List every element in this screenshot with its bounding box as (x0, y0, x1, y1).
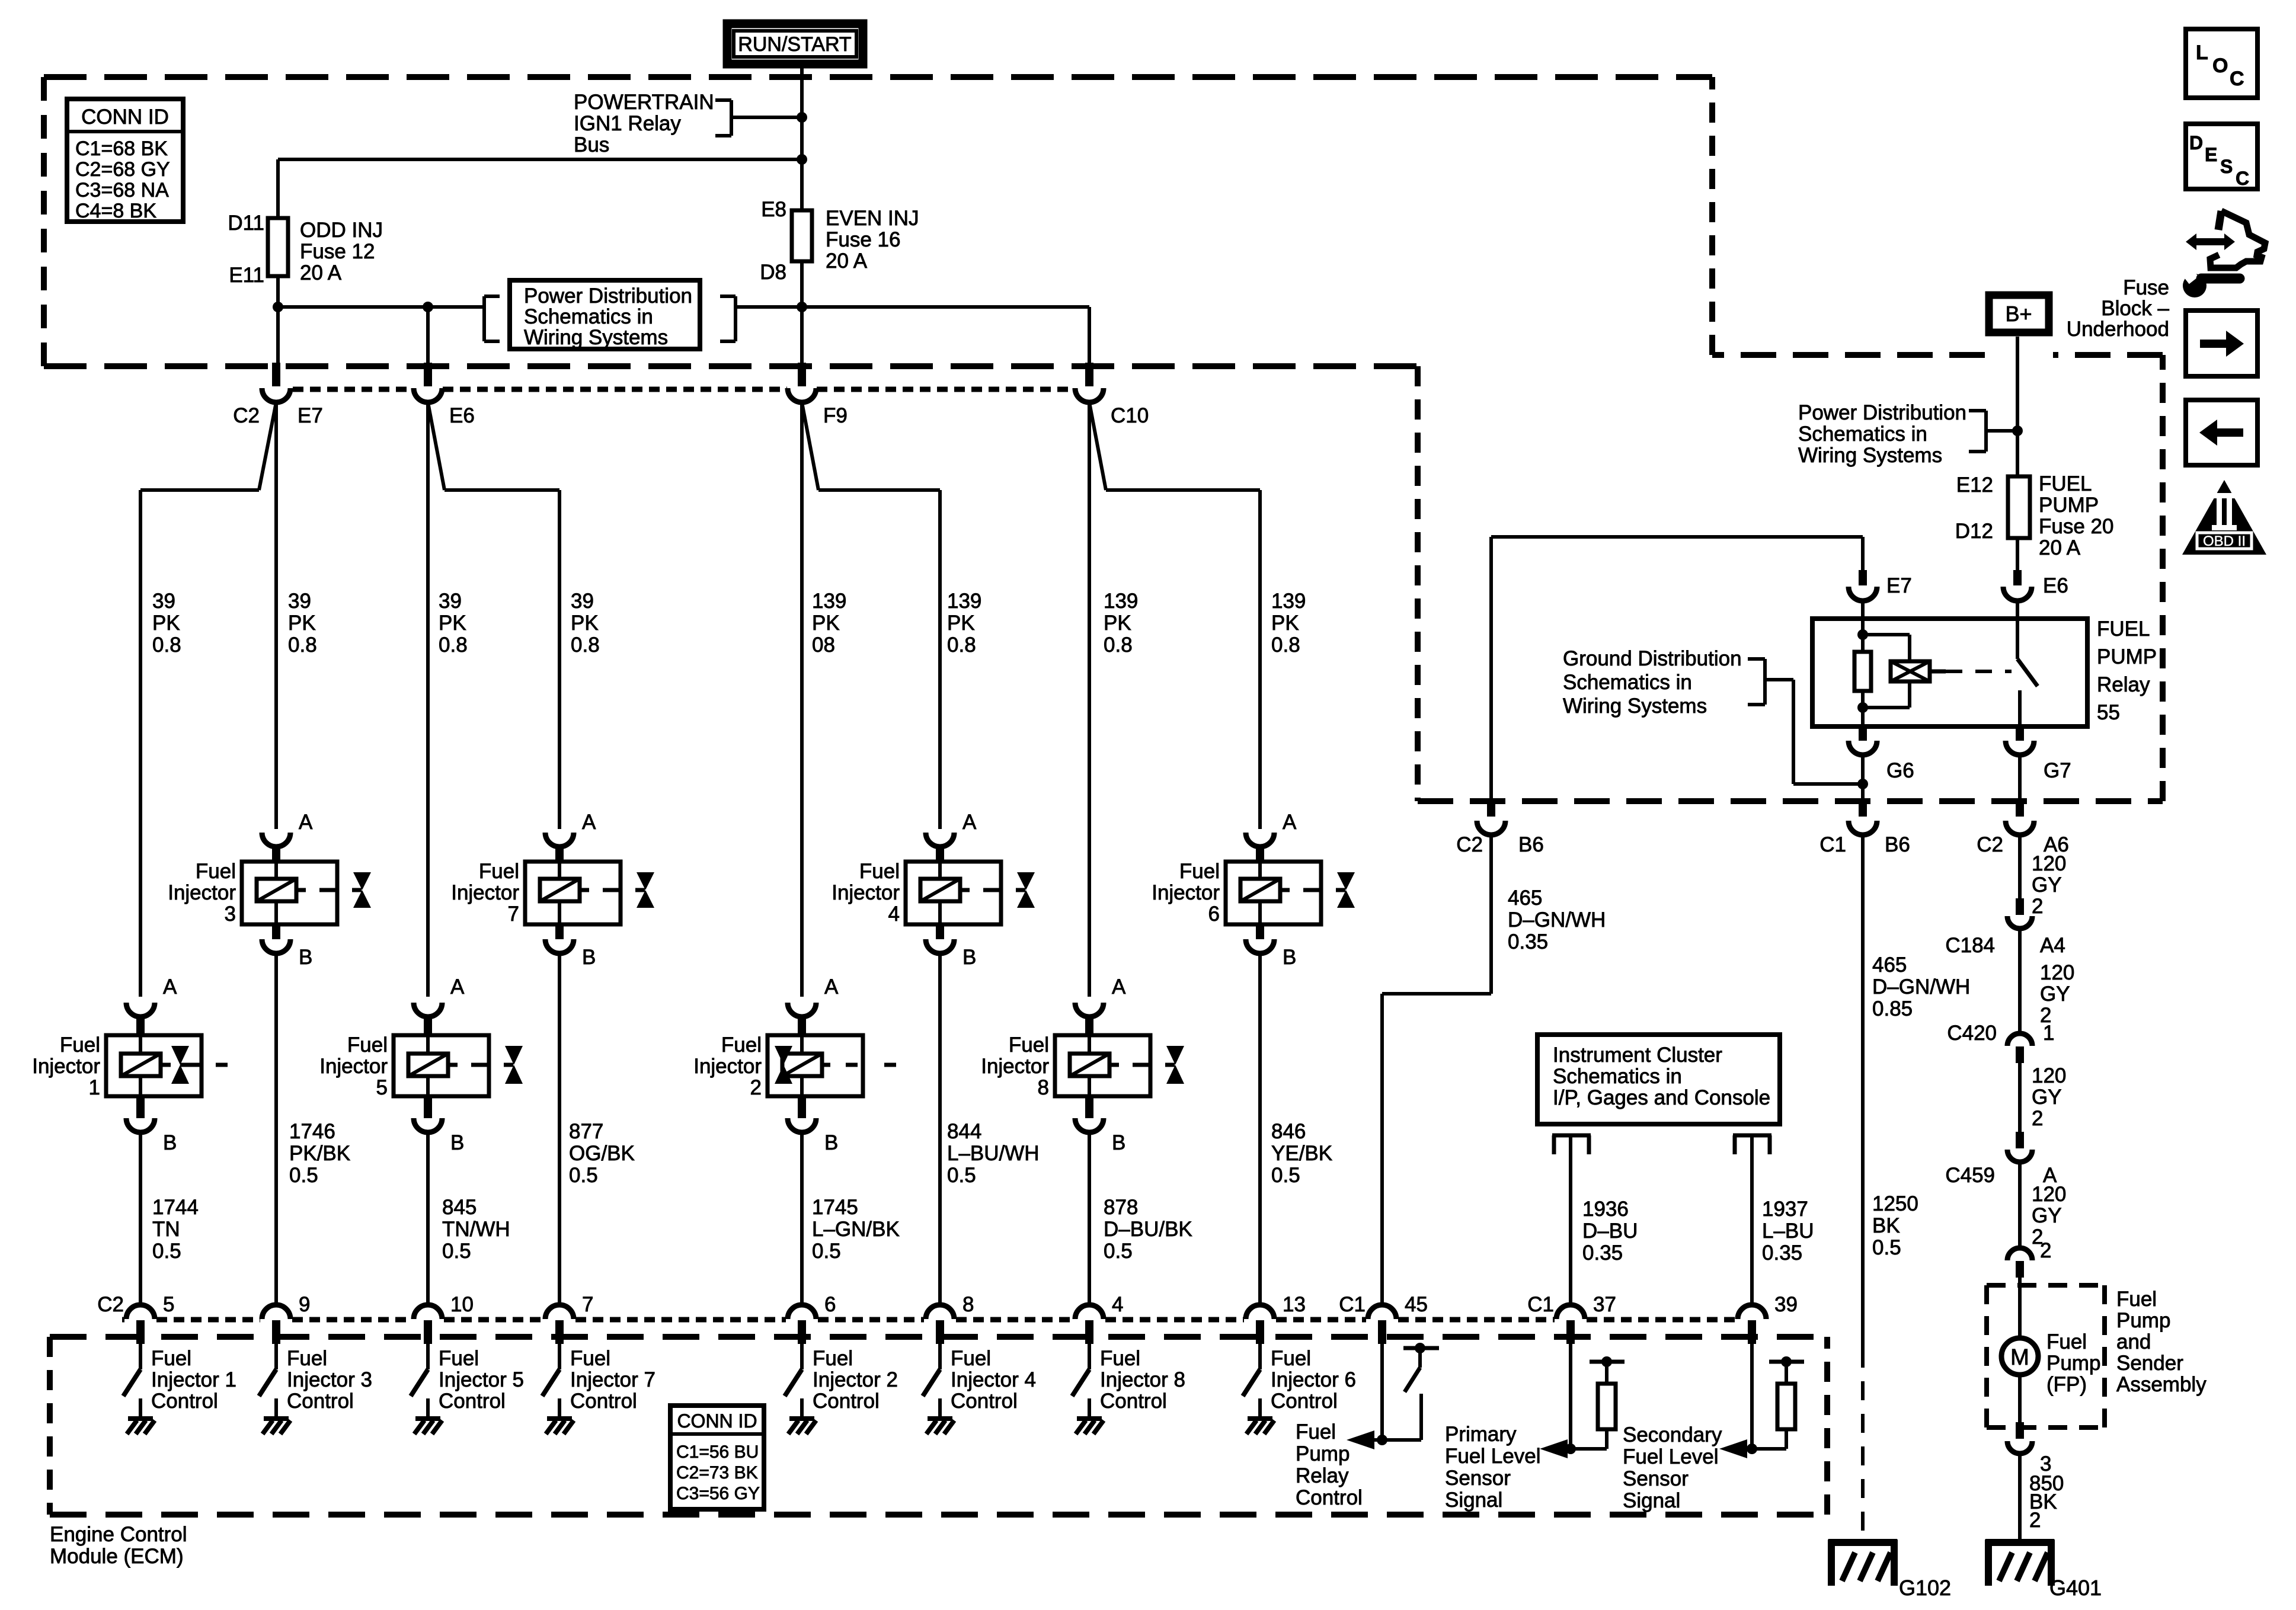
wire G7 to A6 (2018, 755, 2022, 801)
svg-text:0.8: 0.8 (1271, 633, 1300, 657)
connector bracket instrument cluster right (1733, 1134, 1771, 1138)
svg-text:Fuel: Fuel (1100, 1347, 1140, 1370)
svg-text:0.5: 0.5 (442, 1240, 471, 1263)
wire 1937 L-BU 0.35 (1750, 1135, 1754, 1305)
ground G401 (1985, 1539, 2054, 1546)
svg-text:1250: 1250 (1872, 1192, 1918, 1215)
wire ODD fuse to E7 connector (276, 276, 280, 363)
svg-text:0.5: 0.5 (947, 1164, 976, 1187)
svg-text:2: 2 (2029, 1509, 2041, 1532)
svg-text:Power Distribution: Power Distribution (1798, 401, 1966, 424)
svg-text:Injector: Injector (168, 881, 236, 904)
svg-text:GY: GY (2032, 1086, 2062, 1109)
svg-text:0.35: 0.35 (1582, 1241, 1623, 1265)
svg-text:845: 845 (442, 1196, 477, 1219)
wire E7 cup to relay box (1861, 601, 1865, 619)
svg-text:B: B (450, 1131, 464, 1154)
wire ODD distribution to power dist box (278, 305, 484, 309)
svg-text:10: 10 (450, 1293, 474, 1316)
svg-text:1744: 1744 (152, 1196, 199, 1219)
svg-text:Fuel Level: Fuel Level (1445, 1445, 1540, 1468)
svg-text:Signal: Signal (1623, 1489, 1680, 1512)
svg-text:FUEL: FUEL (2097, 617, 2150, 641)
svg-text:E: E (2205, 144, 2217, 165)
svg-text:C1=56 BU: C1=56 BU (676, 1442, 759, 1462)
switch fuel injector 3 control driver (274, 1344, 278, 1369)
fuel injector 6 (1246, 833, 1274, 847)
svg-text:7: 7 (582, 1293, 593, 1316)
svg-text:0.8: 0.8 (947, 633, 976, 657)
ground G102 (1828, 1539, 1897, 1546)
switch fuel injector 1 control driver (139, 1344, 142, 1369)
svg-text:D: D (2189, 132, 2203, 153)
svg-text:Injector: Injector (981, 1055, 1049, 1078)
svg-text:A: A (1283, 811, 1297, 834)
arrow primary fuel level sensor signal (1540, 1439, 1568, 1458)
svg-text:Injector 6: Injector 6 (1271, 1368, 1356, 1391)
svg-text:OG/BK: OG/BK (569, 1142, 635, 1165)
svg-text:Control: Control (287, 1390, 354, 1413)
svg-text:Injector 7: Injector 7 (570, 1368, 655, 1391)
connector face dotted line (top) (293, 387, 413, 392)
svg-text:139: 139 (947, 590, 981, 613)
svg-text:O: O (2212, 55, 2228, 77)
svg-text:L: L (2196, 41, 2208, 64)
svg-text:0.5: 0.5 (569, 1164, 598, 1187)
relay switch (2016, 619, 2019, 659)
connector C2 B6 (relay control) (1487, 801, 1495, 817)
wire E6 to injector 5 (426, 402, 430, 997)
svg-text:D12: D12 (1955, 520, 1993, 543)
svg-text:Schematics in: Schematics in (524, 305, 653, 328)
fuel injector 5 (414, 1003, 442, 1017)
svg-text:OBD II: OBD II (2203, 533, 2246, 549)
svg-text:8: 8 (1038, 1076, 1049, 1099)
svg-text:Bus: Bus (574, 133, 609, 156)
wire injector B to ECM pin 13 (1258, 953, 1262, 1305)
svg-text:G6: G6 (1886, 759, 1914, 782)
svg-text:B: B (962, 946, 976, 969)
svg-text:1: 1 (2043, 1022, 2054, 1045)
svg-text:D–BU/BK: D–BU/BK (1104, 1218, 1192, 1241)
svg-text:08: 08 (812, 633, 835, 657)
svg-text:C459: C459 (1945, 1164, 1995, 1187)
svg-text:Control: Control (1271, 1390, 1338, 1413)
icon vehicle in/out (car with arrow and wrench) (2210, 211, 2265, 268)
svg-text:Fuel: Fuel (60, 1033, 100, 1057)
icon arrow left box (2186, 400, 2257, 465)
svg-text:M: M (2010, 1345, 2029, 1370)
svg-text:ODD INJ: ODD INJ (300, 219, 383, 242)
svg-text:0.8: 0.8 (571, 633, 600, 657)
svg-text:C184: C184 (1945, 934, 1995, 957)
svg-text:Wiring Systems: Wiring Systems (1798, 444, 1942, 467)
wire fuse to relay E6 (2016, 538, 2019, 572)
svg-text:L–BU: L–BU (1762, 1219, 1814, 1243)
svg-text:Control: Control (1100, 1390, 1167, 1413)
wire pump to ground connector (2018, 1375, 2022, 1422)
svg-text:Schematics in: Schematics in (1553, 1065, 1682, 1088)
connector ECM pin 45 (1368, 1305, 1396, 1319)
svg-text:C1: C1 (1527, 1293, 1554, 1316)
svg-text:TN: TN (152, 1218, 180, 1241)
svg-text:6: 6 (1208, 902, 1220, 926)
svg-text:B6: B6 (1885, 833, 1910, 856)
fuse block underhood dashed outline (44, 74, 1712, 80)
wire injector B to ECM pin 8 (938, 953, 942, 1305)
svg-text:Fuel: Fuel (347, 1033, 388, 1057)
svg-text:Fuel: Fuel (1296, 1420, 1336, 1443)
svg-text:120: 120 (2040, 961, 2074, 984)
svg-text:B: B (299, 946, 312, 969)
svg-text:PK: PK (571, 612, 599, 635)
svg-text:Fuel: Fuel (859, 860, 900, 883)
svg-text:0.8: 0.8 (152, 633, 181, 657)
svg-text:C1: C1 (1339, 1293, 1366, 1316)
wire injector B to ECM pin 6 (800, 1132, 804, 1305)
svg-text:39: 39 (152, 590, 175, 613)
svg-text:FUEL: FUEL (2039, 472, 2092, 495)
connector bracket instrument cluster left (1552, 1134, 1591, 1138)
relay coil to switch dashed link (1930, 670, 1946, 674)
svg-text:7: 7 (508, 902, 519, 926)
junction dot ODD INJ branch (797, 154, 807, 165)
svg-text:120: 120 (2032, 852, 2066, 875)
icon DESC box (2186, 124, 2257, 189)
table CONN ID (fuse block) (67, 99, 183, 222)
svg-text:EVEN INJ: EVEN INJ (826, 207, 919, 230)
relay coil (1891, 661, 1930, 681)
fuse F12 ODD INJ 20A (268, 218, 288, 276)
box Power Distribution Schematics in Wiring Systems (fuse block) (510, 280, 700, 349)
svg-text:Fuel: Fuel (1271, 1347, 1311, 1370)
svg-text:5: 5 (163, 1293, 174, 1316)
wire C420 to C459 (2018, 1063, 2022, 1133)
svg-text:Pump: Pump (1296, 1442, 1350, 1465)
relay resistor (1854, 652, 1871, 691)
svg-text:C1: C1 (1819, 833, 1846, 856)
svg-text:GY: GY (2032, 873, 2062, 897)
svg-text:A: A (962, 811, 977, 834)
bracket ground distribution (1748, 657, 1765, 661)
svg-text:Injector 3: Injector 3 (287, 1368, 372, 1391)
wire injector B to ECM pin 9 (274, 953, 278, 1305)
svg-text:Instrument Cluster: Instrument Cluster (1553, 1044, 1722, 1067)
svg-text:A: A (163, 975, 177, 998)
fuel injector 4 (926, 833, 954, 847)
switch fuel injector 5 control driver (426, 1344, 430, 1369)
connector ECM pin 4 (1075, 1305, 1104, 1319)
svg-text:D8: D8 (760, 261, 786, 284)
svg-text:Fuel: Fuel (1179, 860, 1220, 883)
fuel injector 1 (126, 1003, 155, 1017)
wire G6 to B6 (1861, 755, 1865, 801)
svg-text:E7: E7 (298, 404, 323, 427)
ignition switch node RUN/START (727, 24, 863, 64)
svg-text:0.8: 0.8 (439, 633, 468, 657)
connector G7 relay (2016, 726, 2024, 741)
svg-text:Signal: Signal (1445, 1489, 1502, 1512)
svg-text:0.5: 0.5 (152, 1240, 181, 1263)
svg-text:Fuel: Fuel (2116, 1288, 2157, 1311)
wire 465 D-GN/WH 0.85 / 1250 BK 0.5 to G102 (1861, 835, 1865, 1349)
svg-text:37: 37 (1593, 1293, 1616, 1316)
fuel injector 8 (1075, 1003, 1104, 1017)
svg-text:CONN ID: CONN ID (677, 1410, 757, 1432)
switch fuel injector 6 control driver (1258, 1344, 1262, 1369)
connector E7 (fuse block to harness) (272, 363, 280, 386)
svg-text:Primary: Primary (1445, 1423, 1517, 1446)
connector F9 (fuse block to harness) (798, 363, 806, 386)
relay coil branch wires (1861, 619, 1865, 652)
svg-text:Injector: Injector (451, 881, 519, 904)
wire E6 cup to relay box (2016, 601, 2019, 619)
svg-text:Control: Control (151, 1390, 218, 1413)
fuse F16 EVEN INJ 20A (792, 210, 812, 261)
svg-text:B: B (824, 1131, 838, 1154)
svg-text:Relay: Relay (1296, 1464, 1349, 1487)
svg-text:Fuse 16: Fuse 16 (826, 228, 900, 251)
wire relay E7 up and over to C2 B6 (1861, 537, 1865, 572)
svg-text:Fuel: Fuel (2046, 1330, 2087, 1353)
svg-text:Injector 1: Injector 1 (151, 1368, 236, 1391)
wire branch C10 to injector 6 column (1089, 402, 1106, 490)
svg-text:Injector: Injector (319, 1055, 388, 1078)
svg-text:F9: F9 (823, 404, 848, 427)
svg-text:Fuel: Fuel (196, 860, 236, 883)
inline connector pump pin 2 (2007, 1248, 2032, 1260)
wire branch E7 to injector 1 column (259, 402, 276, 490)
svg-text:Fuel: Fuel (479, 860, 519, 883)
svg-text:L–GN/BK: L–GN/BK (812, 1218, 900, 1241)
connector ECM pin 39 (1738, 1305, 1766, 1319)
svg-text:465: 465 (1872, 953, 1907, 977)
svg-text:Injector: Injector (32, 1055, 100, 1078)
junction dot ground distribution (1857, 779, 1868, 789)
svg-text:B: B (1112, 1131, 1125, 1154)
wire branch E6 to injector 7 column (428, 402, 445, 490)
svg-text:GY: GY (2040, 982, 2070, 1006)
svg-text:0.5: 0.5 (1271, 1164, 1300, 1187)
svg-text:Fuel: Fuel (951, 1347, 991, 1370)
svg-text:Fuse: Fuse (2123, 276, 2169, 299)
wire B+ to fuel pump fuse (2016, 337, 2019, 476)
svg-text:PK: PK (288, 612, 316, 635)
svg-text:Control: Control (1296, 1486, 1363, 1509)
svg-text:L–BU/WH: L–BU/WH (947, 1142, 1040, 1165)
junction dot power distribution (right) (2012, 425, 2023, 436)
svg-text:Injector 4: Injector 4 (951, 1368, 1036, 1391)
svg-text:Injector 5: Injector 5 (439, 1368, 524, 1391)
connector ECM pin 10 (414, 1305, 442, 1319)
svg-text:PK/BK: PK/BK (289, 1142, 350, 1165)
svg-text:Fuel: Fuel (439, 1347, 479, 1370)
svg-text:Underhood: Underhood (2067, 318, 2169, 341)
wire pump connector into pump box (2018, 1278, 2022, 1337)
svg-text:Sensor: Sensor (1623, 1467, 1689, 1490)
inline connector C459 A (2016, 1132, 2024, 1148)
svg-text:9: 9 (299, 1293, 310, 1316)
junction dot pin37 (1565, 1443, 1576, 1454)
svg-text:E12: E12 (1956, 473, 1993, 497)
svg-text:A: A (450, 975, 465, 998)
svg-text:39: 39 (571, 590, 594, 613)
bracket left of power distribution box (484, 295, 500, 298)
svg-text:A4: A4 (2040, 934, 2065, 957)
wire pump ground to G401 (2018, 1454, 2022, 1539)
relay box FUEL PUMP Relay 55 (1812, 619, 2087, 726)
svg-text:20 A: 20 A (300, 261, 342, 284)
connector C10 (fuse block to harness) (1085, 363, 1093, 386)
svg-text:Injector: Injector (693, 1055, 762, 1078)
junction dot E6 branch (423, 302, 433, 312)
junction dot EVEN distribution (797, 302, 807, 312)
wire injector B to ECM pin 4 (1088, 1132, 1091, 1305)
svg-text:0.8: 0.8 (288, 633, 317, 657)
svg-text:Assembly: Assembly (2116, 1373, 2207, 1396)
svg-text:4: 4 (1112, 1293, 1123, 1316)
connector ECM pin 8 (926, 1305, 954, 1319)
svg-text:Fuel: Fuel (721, 1033, 762, 1057)
sensor primary fuel level (ECM input) (1569, 1344, 1572, 1449)
svg-text:Sender: Sender (2116, 1352, 2183, 1375)
svg-text:0.35: 0.35 (1762, 1241, 1802, 1265)
svg-text:2: 2 (2032, 1107, 2043, 1130)
wire C10 branch down (1088, 307, 1091, 363)
box Instrument Cluster Schematics in I/P, Gages and Console (1537, 1035, 1780, 1124)
svg-text:39: 39 (288, 590, 311, 613)
svg-text:Power Distribution: Power Distribution (524, 284, 692, 308)
wire power dist box to C10 branch (736, 305, 1089, 309)
svg-text:120: 120 (2032, 1183, 2066, 1206)
connector ECM pin 9 (262, 1305, 290, 1319)
svg-text:CONN ID: CONN ID (81, 105, 169, 129)
bracket POWERTRAIN IGN1 relay bus (715, 98, 731, 102)
switch fuel injector 7 control driver (558, 1344, 561, 1369)
svg-text:E6: E6 (449, 404, 475, 427)
junction dot pin39 (1747, 1443, 1757, 1454)
switch fuel pump relay control driver (1380, 1344, 1384, 1440)
svg-text:8: 8 (962, 1293, 974, 1316)
wire C459 to pump connector (2018, 1162, 2022, 1248)
svg-text:Wiring Systems: Wiring Systems (1563, 694, 1707, 718)
svg-text:(FP): (FP) (2046, 1373, 2087, 1396)
wire E7 to injector 3 (274, 402, 278, 829)
svg-text:0.5: 0.5 (289, 1164, 318, 1187)
svg-text:POWERTRAIN: POWERTRAIN (574, 91, 714, 114)
svg-text:20 A: 20 A (2039, 536, 2081, 559)
svg-text:Control: Control (570, 1390, 637, 1413)
svg-text:Secondary: Secondary (1623, 1423, 1722, 1446)
svg-text:C2: C2 (97, 1293, 124, 1316)
svg-text:PUMP: PUMP (2097, 645, 2157, 668)
icon arrow right box (2186, 311, 2257, 376)
svg-text:Fuel: Fuel (1009, 1033, 1049, 1057)
svg-text:G7: G7 (2044, 759, 2071, 782)
svg-text:C4=8 BK: C4=8 BK (75, 200, 156, 222)
svg-text:139: 139 (1271, 590, 1306, 613)
svg-text:0.5: 0.5 (1872, 1236, 1901, 1259)
wire EVEN fuse to F9 connector (800, 261, 804, 363)
junction dot POWERTRAIN bus (797, 112, 807, 123)
svg-text:1936: 1936 (1582, 1198, 1629, 1221)
svg-text:Pump: Pump (2046, 1352, 2100, 1375)
switch fuel injector 8 control driver (1088, 1344, 1091, 1369)
junction dot pin45 (1377, 1435, 1387, 1445)
svg-text:A: A (299, 811, 313, 834)
svg-text:Control: Control (439, 1390, 506, 1413)
fuse FUEL PUMP Fuse 20 20A (2008, 476, 2030, 538)
wire injector B to ECM pin 10 (426, 1132, 430, 1305)
svg-text:C10: C10 (1111, 404, 1149, 427)
svg-text:4: 4 (888, 902, 900, 926)
wire branch F9 to injector 4 column (802, 402, 818, 490)
svg-text:C2=73 BK: C2=73 BK (676, 1463, 758, 1483)
connector ECM pin 6 (788, 1305, 816, 1319)
svg-text:139: 139 (812, 590, 846, 613)
sensor secondary fuel level (ECM input) (1750, 1344, 1754, 1449)
svg-text:TN/WH: TN/WH (442, 1218, 510, 1241)
svg-text:Relay: Relay (2097, 673, 2150, 696)
svg-text:IGN1 Relay: IGN1 Relay (574, 112, 681, 135)
svg-text:PK: PK (152, 612, 180, 635)
connector C2 A6 (pump feed) (2016, 801, 2024, 817)
svg-text:0.8: 0.8 (1104, 633, 1133, 657)
switch fuel injector 2 control driver (800, 1344, 804, 1369)
power node B+ (1989, 295, 2049, 332)
wire 1936 D-BU 0.35 (1569, 1135, 1572, 1305)
svg-text:39: 39 (1774, 1293, 1798, 1316)
wire IGN1 bus to ODD INJ fuse (278, 158, 802, 161)
connector C1 B6 (ground feed) (1859, 801, 1867, 817)
connector ECM pin 37 (1556, 1305, 1585, 1319)
svg-text:A: A (582, 811, 596, 834)
svg-text:Wiring Systems: Wiring Systems (524, 326, 668, 349)
svg-text:Ground Distribution: Ground Distribution (1563, 647, 1742, 670)
svg-text:55: 55 (2097, 701, 2120, 724)
svg-text:1746: 1746 (289, 1120, 335, 1143)
svg-text:PK: PK (1271, 612, 1299, 635)
svg-text:Fuel: Fuel (570, 1347, 610, 1370)
svg-text:6: 6 (824, 1293, 836, 1316)
wire injector B to ECM pin 5 (139, 1132, 142, 1305)
connector face dotted line (bottom) (122, 1317, 124, 1323)
svg-text:PUMP: PUMP (2039, 494, 2099, 517)
svg-text:0.85: 0.85 (1872, 997, 1913, 1020)
svg-text:C2: C2 (1977, 833, 2003, 856)
svg-text:BK: BK (1872, 1214, 1900, 1237)
wire RUN/START to IGN1 bus (800, 68, 804, 210)
svg-text:Block –: Block – (2101, 297, 2169, 320)
svg-text:Schematics in: Schematics in (1563, 671, 1692, 694)
svg-text:B+: B+ (2005, 302, 2032, 326)
svg-text:D–GN/WH: D–GN/WH (1872, 975, 1970, 998)
svg-text:C: C (2236, 168, 2249, 189)
svg-text:C420: C420 (1947, 1022, 1997, 1045)
svg-text:A: A (824, 975, 839, 998)
svg-text:Engine Control: Engine Control (50, 1523, 187, 1546)
wire C10 to injector 8 (1088, 402, 1091, 997)
svg-text:45: 45 (1405, 1293, 1428, 1316)
svg-text:878: 878 (1104, 1196, 1138, 1219)
svg-text:B: B (582, 946, 596, 969)
svg-text:PK: PK (1104, 612, 1131, 635)
svg-text:E11: E11 (229, 264, 264, 287)
svg-text:Sensor: Sensor (1445, 1467, 1511, 1490)
icon OBD II triangle (2182, 480, 2266, 555)
svg-text:C2: C2 (233, 404, 260, 427)
svg-text:0.35: 0.35 (1508, 930, 1548, 953)
